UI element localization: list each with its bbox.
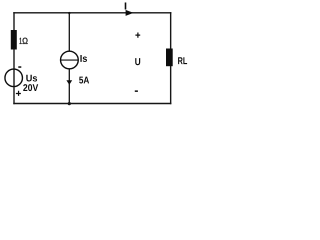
voltage source Us: circle (left wire passes through) [5, 69, 23, 87]
arrow: I current direction (right) on top wire [126, 10, 134, 16]
label 1 ohm [20, 38, 28, 44]
label 5A [79, 77, 89, 84]
current source Is: horizontal bar [61, 59, 79, 61]
label Us [26, 75, 37, 82]
junction node bottom (middle branch / bottom wire) [68, 102, 71, 105]
wire: middle branch upper segment [68, 13, 70, 52]
label RL [178, 57, 187, 64]
wire: middle branch lower segment [68, 68, 70, 103]
label U [135, 58, 140, 65]
label minus (U bottom) [135, 90, 138, 92]
label plus (U top) [135, 33, 140, 38]
wire: bottom return [14, 103, 171, 105]
wire: top (node A to node B) [14, 12, 171, 14]
junction node top (middle branch / top wire) [68, 12, 70, 14]
current source Is: circle [61, 51, 79, 69]
label plus (Us bottom terminal) [16, 91, 21, 96]
label 20V [23, 84, 38, 91]
resistor 1 ohm: body (filled) [11, 30, 17, 50]
arrow: Is current direction (down), on lower branch wire [66, 80, 72, 85]
wire: left (through 1 ohm resistor and Us) [13, 13, 15, 104]
resistor RL: body (filled) [166, 49, 173, 67]
label minus (Us top terminal) [18, 66, 21, 68]
wire: right (through RL) [170, 13, 172, 104]
label Is [80, 55, 87, 62]
label I [125, 2, 127, 9]
